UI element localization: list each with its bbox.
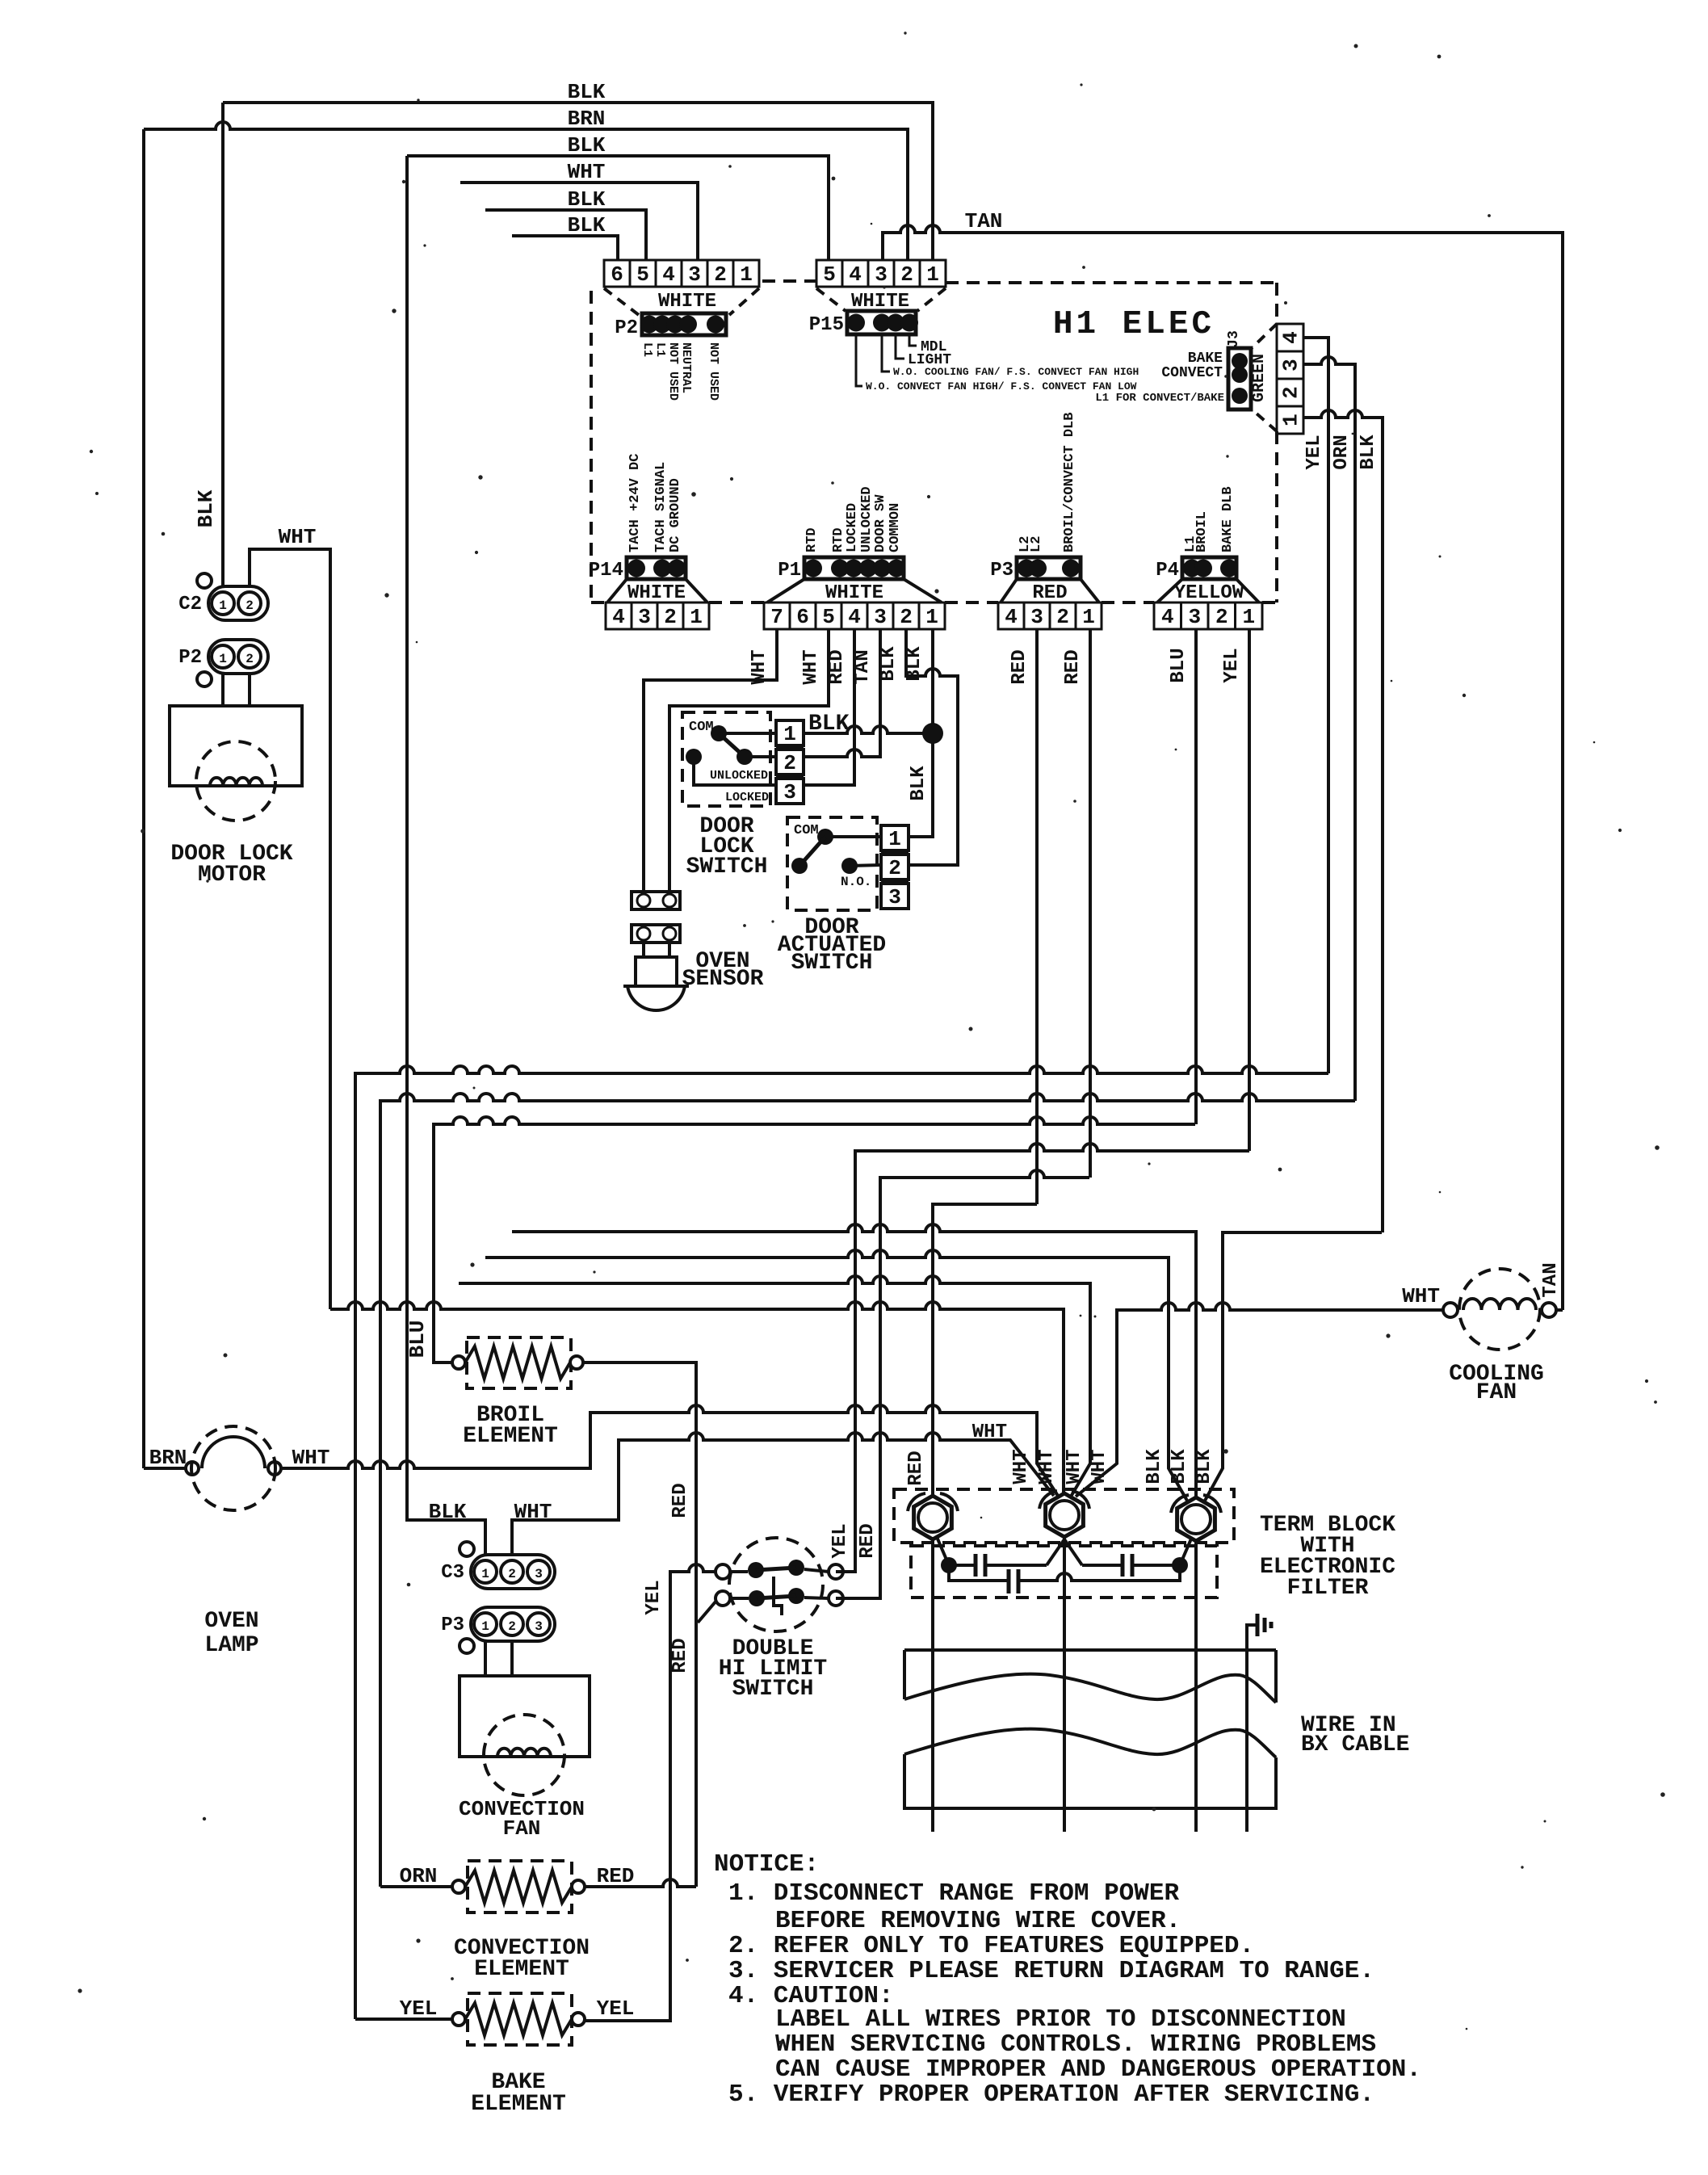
connector J3 trapezoid slants	[1250, 324, 1277, 350]
svg-text:2: 2	[900, 605, 913, 629]
svg-text:BEFORE REMOVING WIRE COVER.: BEFORE REMOVING WIRE COVER.	[775, 1907, 1181, 1935]
filter left junction dot	[941, 1557, 957, 1573]
oven lamp dashed circle	[191, 1426, 275, 1510]
svg-text:TAN: TAN	[965, 209, 1003, 233]
wire BLK from top-left down to C2 pin 1	[221, 103, 225, 586]
svg-text:1: 1	[926, 262, 939, 287]
wire WHT bus (door lock motor) to term block	[330, 1302, 1064, 1494]
svg-text:RED: RED	[669, 1483, 691, 1518]
svg-text:WHT: WHT	[292, 1446, 330, 1470]
wire RED P1-4 to door lock switch 3	[802, 629, 854, 785]
wire WHT term block to cooling fan	[1076, 1303, 1450, 1497]
svg-text:FAN: FAN	[1476, 1380, 1517, 1405]
svg-text:BAKE DLB: BAKE DLB	[1220, 486, 1236, 552]
wire ORN from J3 pin 3 to bus	[1303, 357, 1355, 1101]
svg-text:N.O.: N.O.	[841, 875, 871, 889]
svg-text:1. DISCONNECT RANGE FROM POWE: 1. DISCONNECT RANGE FROM POWER	[728, 1879, 1179, 1908]
hi limit bottom contacts and arm	[749, 1590, 765, 1606]
wire RED P3-1 down to bus	[1089, 629, 1092, 1178]
wire WHT oven lamp to term block	[281, 1405, 1058, 1496]
hi limit bottom-left terminal	[716, 1591, 730, 1606]
svg-text:LABEL ALL WIRES PRIOR TO DISCO: LABEL ALL WIRES PRIOR TO DISCONNECTION	[775, 2005, 1346, 2034]
wire BLK bus (wire6) to term block	[512, 1224, 1196, 1497]
broil element dashed box	[467, 1337, 571, 1388]
connector P4 header boxes 4-1	[1154, 603, 1181, 629]
broil element right terminal	[570, 1356, 583, 1369]
svg-text:YELLOW: YELLOW	[1174, 582, 1244, 604]
svg-text:P3: P3	[441, 1614, 464, 1636]
svg-text:ORN: ORN	[1331, 435, 1353, 469]
board outline dashed right edge lower	[1275, 431, 1278, 603]
svg-text:NOT USED: NOT USED	[707, 342, 720, 401]
connector P4 trapezoid slants	[1157, 579, 1182, 603]
svg-text:1: 1	[481, 1567, 489, 1581]
svg-text:1: 1	[219, 598, 227, 613]
svg-text:1: 1	[219, 652, 227, 666]
svg-text:ORN: ORN	[400, 1864, 438, 1888]
svg-text:DOOR SW: DOOR SW	[873, 494, 888, 552]
board outline dashed top edge (P15 to J3)	[946, 281, 1277, 284]
svg-text:P4: P4	[1156, 560, 1179, 582]
svg-text:3: 3	[888, 885, 901, 909]
wire BLK from J3 pin 1 to bus	[1303, 410, 1383, 1232]
svg-text:2: 2	[1279, 386, 1303, 399]
connector P2 (motor side)	[208, 640, 268, 674]
wire BLK (from top wire3) to C3 pin 1	[407, 156, 485, 1555]
connector P3 pin strip	[1017, 557, 1081, 579]
wire P3-2 to fan motor	[510, 1641, 514, 1676]
connector J3 pin strip	[1228, 348, 1251, 409]
wire YEL bus J3-4 to bake element	[355, 1066, 1328, 2019]
oven sensor body	[636, 957, 677, 986]
wire RED bus P3-1 to double hi limit switch	[836, 1170, 1089, 1598]
connector P4 pin strip	[1182, 557, 1236, 579]
svg-text:1: 1	[690, 605, 703, 629]
svg-text:1: 1	[925, 605, 938, 629]
filter bottom capacitor C-C	[949, 1565, 1009, 1581]
svg-text:SWITCH: SWITCH	[686, 854, 768, 880]
svg-text:BLK: BLK	[1194, 1449, 1215, 1484]
svg-text:4: 4	[848, 605, 861, 629]
svg-text:OVEN: OVEN	[204, 1609, 258, 1634]
svg-text:NOTICE:: NOTICE:	[714, 1850, 819, 1879]
P15 pin wire to MDL label	[909, 334, 917, 346]
svg-text:H1 ELEC: H1 ELEC	[1053, 306, 1215, 343]
svg-text:NEUTRAL: NEUTRAL	[679, 342, 693, 393]
svg-text:RED: RED	[597, 1864, 635, 1888]
svg-text:MOTOR: MOTOR	[198, 863, 266, 888]
svg-text:1: 1	[1242, 605, 1255, 629]
svg-text:L1: L1	[653, 342, 667, 357]
svg-text:P2: P2	[615, 317, 638, 339]
DLS common contact dot	[711, 725, 727, 741]
svg-text:RED: RED	[1032, 582, 1067, 604]
filter capacitor C-B	[1064, 1539, 1082, 1565]
convection fan motor box	[460, 1676, 590, 1757]
svg-text:BLK: BLK	[194, 489, 218, 527]
svg-text:3: 3	[1030, 605, 1043, 629]
door actuated switch dashed box	[787, 817, 877, 910]
hi limit mechanical link	[774, 1577, 782, 1615]
svg-text:BLK: BLK	[429, 1500, 467, 1524]
svg-text:W.O. CONVECT FAN HIGH/ F.S. CO: W.O. CONVECT FAN HIGH/ F.S. CONVECT FAN …	[866, 380, 1137, 393]
wire WHT bus (wire4) to term block	[459, 1276, 1090, 1497]
BX cable wavy line 2	[904, 1729, 1276, 1757]
svg-text:3: 3	[783, 780, 796, 804]
DLS switch arm	[719, 733, 745, 757]
svg-text:RED: RED	[905, 1451, 927, 1485]
svg-text:4: 4	[1005, 605, 1018, 629]
svg-text:WHEN SERVICING CONTROLS. WIRIN: WHEN SERVICING CONTROLS. WIRING PROBLEMS	[775, 2030, 1376, 2059]
svg-text:2: 2	[245, 652, 254, 666]
connector P15 pin strip	[847, 311, 916, 334]
oven lamp right terminal	[268, 1462, 281, 1475]
BX cable lower band	[904, 1754, 1276, 1808]
convection fan coil	[497, 1749, 551, 1757]
svg-text:YEL: YEL	[400, 1997, 438, 2021]
door lock switch dashed box	[682, 712, 770, 806]
ground symbol	[1256, 1614, 1260, 1636]
svg-text:3: 3	[535, 1619, 543, 1634]
svg-text:TAN: TAN	[1540, 1262, 1562, 1297]
scan speckles	[1080, 83, 1082, 86]
svg-text:BLK: BLK	[1358, 435, 1379, 470]
wire YEL bus P4-1 to double hi limit switch	[836, 1144, 1249, 1572]
oven sensor connector block upper	[632, 892, 680, 909]
cooling fan dashed circle	[1459, 1269, 1540, 1350]
svg-text:L1 FOR CONVECT/BAKE: L1 FOR CONVECT/BAKE	[1095, 392, 1224, 405]
svg-text:WHT: WHT	[1402, 1284, 1440, 1308]
door lock motor dashed circle	[196, 741, 275, 821]
svg-text:LOCKED: LOCKED	[845, 503, 860, 552]
svg-text:2: 2	[508, 1567, 516, 1581]
svg-text:P1: P1	[778, 560, 801, 582]
svg-text:BLK: BLK	[568, 80, 606, 104]
svg-text:SWITCH: SWITCH	[791, 951, 873, 976]
wire WHT C3 pin 2 to term block	[512, 1433, 1054, 1555]
svg-text:BLK: BLK	[1144, 1449, 1165, 1484]
svg-text:1: 1	[783, 722, 796, 746]
svg-text:7: 7	[770, 605, 783, 629]
wire P2-1 to motor	[221, 674, 225, 706]
svg-text:4: 4	[1279, 331, 1303, 344]
svg-text:6: 6	[796, 605, 809, 629]
svg-text:1: 1	[888, 827, 901, 851]
connector P3 trapezoid slants	[1001, 579, 1017, 603]
svg-text:ELEMENT: ELEMENT	[463, 1424, 558, 1449]
BX cable upper band edges	[903, 1650, 906, 1699]
wire RED hi-limit bottom-left diagonal	[698, 1601, 716, 1623]
svg-text:BLU: BLU	[1168, 648, 1190, 682]
BX cable top edge	[904, 1648, 1276, 1652]
svg-text:BLK: BLK	[568, 187, 606, 212]
wire RED P3-3 down to bus	[1035, 629, 1039, 1204]
filter wire hex to dot (right)	[1180, 1537, 1192, 1565]
svg-text:BLK: BLK	[908, 766, 930, 801]
board outline dashed right edge upper	[1275, 283, 1278, 324]
DLS arm wire to terminal 2	[745, 755, 776, 758]
svg-text:2. REFER ONLY TO FEATURES EQU: 2. REFER ONLY TO FEATURES EQUIPPED.	[728, 1932, 1254, 1960]
filter right junction dot	[1172, 1557, 1188, 1573]
wire RED convection element right to hi-limit	[585, 1879, 696, 1887]
svg-text:C2: C2	[178, 594, 202, 615]
svg-text:3: 3	[638, 605, 651, 629]
term block right hex terminal	[1177, 1497, 1215, 1541]
svg-text:COM: COM	[689, 720, 714, 735]
wire BLK junction to door lock switch 1	[802, 726, 933, 733]
bake element right terminal	[572, 2013, 585, 2026]
svg-text:WHT: WHT	[1064, 1449, 1085, 1484]
svg-text:4: 4	[1161, 605, 1174, 629]
hi limit top-left terminal	[716, 1564, 730, 1579]
wire BLK to P2 pin 5	[485, 210, 646, 260]
hi limit top-right terminal	[829, 1564, 843, 1579]
wire BLK J3-1 to term block (via 1514)	[1205, 1232, 1382, 1501]
svg-text:YEL: YEL	[1221, 648, 1243, 682]
svg-text:3: 3	[1188, 605, 1201, 629]
filter capacitor C-A	[949, 1564, 976, 1567]
wire BLK to P15 pin 5	[407, 156, 829, 260]
svg-text:2: 2	[888, 856, 901, 880]
connector P14 trapezoid slants	[607, 579, 627, 603]
wire BRN from left bend to P15 pin 2	[144, 122, 908, 260]
svg-text:3. SERVICER PLEASE RETURN DIA: 3. SERVICER PLEASE RETURN DIAGRAM TO RAN…	[728, 1957, 1374, 1985]
svg-text:ELEMENT: ELEMENT	[471, 2092, 566, 2117]
oven sensor leads	[642, 943, 645, 957]
svg-text:LOCKED: LOCKED	[725, 791, 769, 804]
electronic filter dashed box	[911, 1546, 1217, 1598]
svg-text:WHT: WHT	[800, 649, 822, 684]
svg-text:BROIL/CONVECT DLB: BROIL/CONVECT DLB	[1062, 413, 1077, 552]
P15 pin wire to W.O. CONVECT FAN HIGH label	[856, 334, 862, 386]
convection element resistor	[465, 1871, 572, 1903]
svg-text:1: 1	[481, 1619, 489, 1634]
DLS unlocked wire to terminal 3	[694, 757, 776, 785]
DLS arm end dot	[736, 749, 753, 765]
wire WHT P1-5 to oven sensor	[669, 629, 829, 892]
wire YEL bake element left	[355, 2018, 452, 2021]
svg-text:WHT: WHT	[972, 1421, 1007, 1443]
svg-text:RTD: RTD	[804, 527, 820, 552]
board outline dashed bottom edge segs	[591, 601, 606, 604]
term block middle hex terminal	[1046, 1493, 1084, 1537]
svg-text:ELEMENT: ELEMENT	[474, 1957, 569, 1982]
svg-text:4: 4	[849, 262, 862, 287]
svg-text:WHT: WHT	[568, 160, 606, 184]
svg-text:3: 3	[1279, 359, 1303, 372]
svg-text:RED: RED	[826, 649, 848, 684]
svg-text:WHT: WHT	[279, 525, 317, 549]
svg-text:6: 6	[611, 262, 623, 287]
svg-text:RED: RED	[857, 1523, 879, 1558]
wire YEL hi-limit top-left to bake element right	[585, 1564, 716, 2021]
svg-text:BLU: BLU	[405, 1321, 430, 1358]
svg-text:WHT: WHT	[749, 649, 770, 684]
svg-text:WHITE: WHITE	[658, 291, 716, 313]
svg-text:1: 1	[1082, 605, 1095, 629]
connector P14 header boxes 4-1	[606, 603, 632, 629]
board outline dashed left edge	[590, 291, 593, 603]
broil element left terminal	[452, 1356, 465, 1369]
BX cable wavy line 1	[904, 1674, 1276, 1703]
svg-text:2: 2	[783, 751, 796, 775]
svg-text:5: 5	[823, 262, 836, 287]
bake element left terminal	[452, 2013, 465, 2026]
svg-text:L1: L1	[640, 342, 654, 357]
oven lamp filament arc	[202, 1437, 265, 1468]
convection fan dashed circle	[484, 1715, 564, 1795]
svg-text:P15: P15	[809, 314, 844, 336]
wire WHT to P2 pin 3	[460, 183, 698, 260]
filter wire hex to dot (left)	[937, 1537, 949, 1565]
svg-text:4: 4	[612, 605, 625, 629]
svg-text:COM: COM	[794, 823, 819, 838]
svg-text:WHITE: WHITE	[627, 582, 686, 604]
svg-text:P3: P3	[990, 560, 1013, 582]
svg-text:3: 3	[535, 1567, 543, 1581]
door lock switch terminal strip 1-2-3	[776, 720, 804, 745]
svg-text:YEL: YEL	[597, 1997, 635, 2021]
connector P14 pin strip	[627, 557, 686, 579]
wire BLK P1-2 to door actuated switch 2	[906, 629, 958, 865]
DAS common wire to terminal 1	[825, 835, 881, 838]
svg-text:YEL: YEL	[1303, 435, 1325, 469]
svg-text:2: 2	[664, 605, 677, 629]
svg-text:BRN: BRN	[149, 1446, 187, 1470]
svg-text:P14: P14	[589, 560, 623, 582]
svg-text:2: 2	[714, 262, 727, 287]
wire ORN bus J3-3 to convection element	[380, 1094, 1355, 1887]
svg-text:3: 3	[874, 605, 887, 629]
svg-text:TACH +24V DC: TACH +24V DC	[627, 454, 643, 552]
wire P2-2 to motor	[248, 674, 251, 706]
connector P1 trapezoid slants	[767, 579, 804, 603]
ground wire	[1247, 1625, 1257, 1650]
wire WHT C2 pin 2 to bus	[250, 549, 330, 1309]
svg-text:1: 1	[740, 262, 753, 287]
broil element resistor	[465, 1346, 570, 1379]
svg-text:3: 3	[875, 262, 888, 287]
svg-text:BLK: BLK	[568, 133, 606, 157]
svg-text:4: 4	[662, 262, 675, 287]
svg-text:2: 2	[508, 1619, 516, 1634]
svg-text:BLK: BLK	[904, 646, 925, 682]
connector P2 header boxes 6-1	[604, 260, 630, 287]
svg-text:COMMON: COMMON	[888, 503, 903, 552]
svg-text:BRN: BRN	[568, 107, 606, 131]
svg-text:WHITE: WHITE	[825, 582, 883, 604]
svg-text:LAMP: LAMP	[204, 1633, 258, 1658]
svg-text:2: 2	[1056, 605, 1069, 629]
wire ORN convection element left	[380, 1885, 452, 1888]
junction dot BLK node	[922, 723, 943, 744]
wire BLU P4-3 down to bus	[1194, 629, 1198, 1124]
convection element dashed box	[468, 1861, 572, 1913]
door actuated switch terminal strip 1-2-3	[881, 825, 909, 850]
svg-text:BX CABLE: BX CABLE	[1301, 1732, 1409, 1757]
svg-text:WHT: WHT	[514, 1500, 552, 1524]
wire RED broil element to hi limit and convection element	[583, 1363, 696, 1887]
svg-text:DC GROUND: DC GROUND	[668, 478, 683, 552]
wire TAN from P15 pin 3 to cooling fan right	[883, 225, 1563, 1310]
P15 pin wire to W.O. COOLING FAN label	[882, 334, 890, 372]
svg-text:WHT: WHT	[1036, 1449, 1058, 1484]
svg-text:2: 2	[900, 262, 913, 287]
door lock motor coil	[210, 778, 262, 786]
svg-text:2: 2	[1215, 605, 1228, 629]
wire BRN from top-left down to oven lamp	[142, 129, 145, 1468]
hi limit top contacts and arm	[748, 1562, 764, 1578]
wire YEL P4-1 down to bus	[1248, 629, 1251, 1151]
svg-text:FILTER: FILTER	[1287, 1576, 1369, 1601]
oven lamp left terminal	[186, 1462, 199, 1475]
hi limit bottom-right terminal	[829, 1591, 843, 1606]
svg-text:BLK: BLK	[808, 712, 850, 737]
svg-text:WHT: WHT	[1010, 1449, 1032, 1484]
door lock motor box	[170, 706, 302, 786]
connector P1 header boxes 7-1	[764, 603, 790, 629]
svg-text:C3: C3	[441, 1562, 464, 1584]
DAS common contact dot	[817, 829, 833, 845]
svg-text:BROIL: BROIL	[1194, 511, 1210, 552]
connector P15 header boxes 5-1	[816, 260, 842, 287]
svg-text:P2: P2	[178, 647, 202, 669]
convection element right terminal	[572, 1880, 585, 1893]
svg-text:J3: J3	[1226, 330, 1242, 348]
bake element resistor	[465, 2003, 572, 2035]
svg-text:WHT: WHT	[1089, 1449, 1110, 1484]
wire P3-1 to fan motor	[484, 1641, 487, 1676]
svg-text:BAKE: BAKE	[1188, 351, 1223, 367]
svg-text:RED: RED	[669, 1638, 691, 1673]
cooling fan left terminal	[1443, 1303, 1458, 1317]
connector P3 (fan side)	[471, 1607, 555, 1641]
term block left hex terminal	[914, 1496, 952, 1539]
svg-text:UNLOCKED: UNLOCKED	[710, 769, 768, 783]
wire BLK bus (wire5) to term block	[485, 1250, 1187, 1501]
DAS N.O. wire to terminal 2	[850, 865, 881, 866]
DLS unlocked contact dot	[686, 749, 702, 765]
wire BLK (top) from left bend to P15 pin 1	[223, 103, 933, 260]
term block stems to cable	[931, 1537, 934, 1832]
svg-text:5. VERIFY PROPER OPERATION AF: 5. VERIFY PROPER OPERATION AFTER SERVICI…	[728, 2081, 1374, 2109]
connector P15 trapezoid slants	[816, 288, 846, 311]
connector C3	[471, 1555, 555, 1589]
connector P1 pin strip	[804, 557, 904, 579]
DAS arm end dot	[791, 858, 808, 874]
svg-text:YEL: YEL	[643, 1580, 665, 1614]
svg-text:TAN: TAN	[852, 649, 874, 684]
P15 pin wire to LIGHT label	[896, 334, 904, 359]
svg-text:BLK: BLK	[568, 213, 606, 237]
wire YEL from J3 pin 4 to bus	[1303, 338, 1328, 1073]
DLS common wire to terminal 1	[719, 732, 776, 735]
svg-text:L2: L2	[1029, 536, 1044, 552]
svg-text:BLK: BLK	[878, 646, 900, 682]
DAS switch arm	[799, 837, 825, 866]
wire BLK junction down to door actuated switch 1	[908, 733, 933, 837]
connector P2 trapezoid slants	[604, 288, 639, 315]
svg-text:RED: RED	[1009, 649, 1030, 684]
connector P2 pin strip	[642, 313, 726, 335]
svg-text:2: 2	[245, 598, 254, 613]
wire RED bus P3-3 to term block	[933, 1204, 1037, 1496]
svg-text:YEL: YEL	[829, 1523, 851, 1558]
svg-text:1: 1	[1279, 414, 1303, 426]
DAS N.O. contact dot	[841, 858, 858, 874]
hi limit switch dashed circle	[729, 1538, 823, 1631]
svg-text:3: 3	[688, 262, 701, 287]
